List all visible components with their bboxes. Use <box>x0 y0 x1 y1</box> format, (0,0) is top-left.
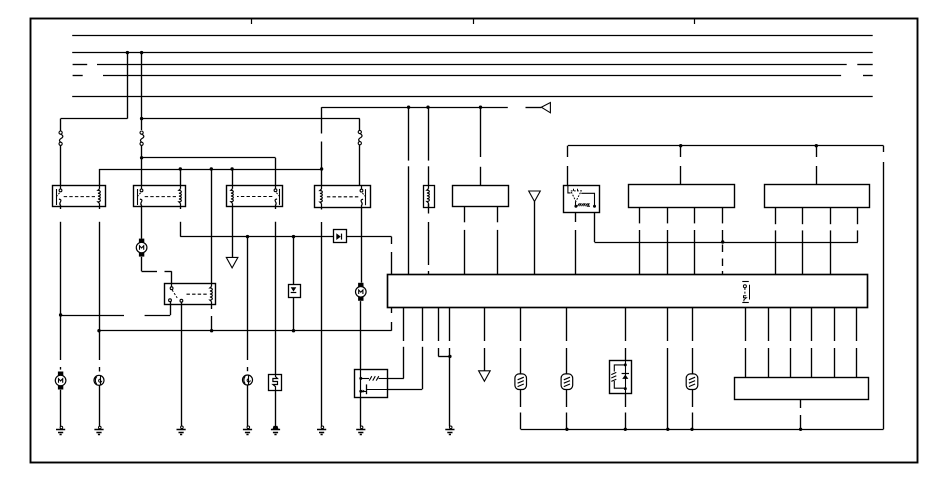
wire inj3 to bus <box>692 390 694 408</box>
wire R1 coil riser <box>99 169 101 185</box>
wire node-C drop to R3 <box>275 158 277 185</box>
junction y331/R5 coil <box>210 329 213 332</box>
relay R4 <box>315 186 371 208</box>
sheet tick 2 <box>473 19 475 24</box>
injector N1 <box>515 374 527 390</box>
wire Q1 to ground <box>360 397 362 426</box>
junction R3 coil <box>230 167 233 170</box>
sheet tick 1 <box>251 19 253 24</box>
wire U3 pin3 <box>830 207 832 224</box>
off-page arrow down B <box>529 191 541 202</box>
wire B1 top pin <box>480 107 482 157</box>
junction R2 coil <box>179 167 182 170</box>
off-page arrow left <box>541 103 550 113</box>
wire D1 column top <box>293 237 295 285</box>
wire B1 pin2 <box>497 207 499 223</box>
unit B1 box <box>453 186 509 207</box>
wire R5 coil down <box>211 305 213 309</box>
wire R1 coil down <box>99 207 101 209</box>
relay R5 <box>165 284 216 305</box>
wire S1 to ground <box>275 391 277 427</box>
junction bus/pin <box>666 428 669 431</box>
ground G5 <box>273 426 279 429</box>
wire Q1 out1 <box>387 378 404 380</box>
wire ecu-a drop <box>408 107 410 160</box>
igniter I1 <box>564 186 600 213</box>
wire F2 down <box>141 146 143 185</box>
wire R1 switch down <box>60 207 62 209</box>
off-page arrow down A <box>226 257 238 268</box>
wire feed-A down <box>127 53 129 119</box>
fuse F1 <box>59 134 62 142</box>
wire branch right <box>142 118 360 120</box>
bottom bus <box>521 429 884 431</box>
sheet tick 3 <box>694 19 696 24</box>
wire ECU arrow pin <box>484 308 486 341</box>
unit U3 box <box>765 185 870 208</box>
wire Q1 out2 <box>387 389 422 391</box>
junction bus/inj2 <box>565 428 568 431</box>
wire arrowB to ECU <box>534 202 536 275</box>
injector N2 <box>561 374 573 390</box>
wire y242 end riser <box>857 230 859 242</box>
ground G2 <box>99 426 102 429</box>
lamp L1 <box>94 375 104 385</box>
wire R2 switch down <box>141 207 143 239</box>
fuse F2 <box>140 134 143 142</box>
ECU box U1 <box>388 275 868 308</box>
ECU internal check switch <box>742 281 749 283</box>
junction y237/lamp L2 <box>246 235 249 238</box>
motor M3 (fuel pump) <box>358 283 363 287</box>
junction node-C <box>140 156 143 159</box>
bus line 1 <box>72 35 873 37</box>
motor M2 (servo) <box>139 239 144 243</box>
wire J1 pin5 <box>834 308 836 341</box>
wire R3 coil riser <box>232 169 234 185</box>
wire valve pin <box>625 308 627 341</box>
bus line 3 right dash <box>857 64 872 66</box>
wire ecu-b drop <box>428 107 430 160</box>
wire U2 pin4 <box>722 207 724 223</box>
lamp L2 <box>243 375 253 385</box>
wire ECU gnd pin a <box>438 308 440 341</box>
wire inj1 pin <box>520 308 522 341</box>
wire feed-B down <box>141 53 143 130</box>
wire inj3 pin <box>692 308 694 341</box>
unit U2 box <box>629 185 735 208</box>
wire R4 coil down <box>321 207 323 209</box>
wire R5 contact2 down <box>181 302 183 305</box>
junction y107/box-B1 <box>479 106 482 109</box>
junction bus/J1 <box>799 428 802 431</box>
wire M2 to R5 common <box>141 257 143 271</box>
junction y237/diode D1 <box>292 235 295 238</box>
wire rail right drop <box>883 146 885 152</box>
ground G6 <box>321 426 324 429</box>
wire branch drop <box>359 119 361 131</box>
ground rail y146 <box>568 145 884 147</box>
junction y107/ecu-b <box>426 106 429 109</box>
junction feed-B/branch <box>140 117 143 120</box>
wire R2 coil down <box>180 207 182 209</box>
wire feed-A left <box>61 118 128 120</box>
wire R4 switch down <box>361 207 363 283</box>
junction bus/inj3 <box>690 428 693 431</box>
wire U2 pin2 <box>667 207 669 223</box>
wire y107 dash <box>526 107 542 109</box>
fuse F3 <box>359 134 362 142</box>
diode D2 in box <box>334 230 347 243</box>
injector N3 <box>686 374 698 390</box>
wire J1 pin4 <box>811 308 813 341</box>
ground G3 <box>181 426 184 429</box>
wire y107 rail <box>322 107 508 109</box>
junction bus2/feed-A <box>126 51 129 54</box>
junction node-D <box>320 167 323 170</box>
wire U2 pin1 <box>639 207 641 223</box>
wire U2 top pin <box>680 146 682 157</box>
wire inj2 pin <box>566 308 568 341</box>
bus line 4 right dash <box>863 75 873 77</box>
wire J1 to bus <box>800 399 802 408</box>
wire node-E to R5 contact <box>61 315 124 317</box>
bus line 5 <box>72 96 873 98</box>
bus line 4 left dash <box>73 75 83 77</box>
wire valve to bus <box>625 393 627 407</box>
coil unit K1 <box>424 186 435 208</box>
connector J1 <box>735 378 869 400</box>
wire R3 coil down <box>232 207 234 258</box>
wire y331 run <box>99 330 392 332</box>
wire y237 run <box>180 236 333 238</box>
wire R2 coil riser <box>180 169 182 185</box>
ground G7 <box>360 426 363 429</box>
wire M1 to ground <box>60 390 62 427</box>
junction bus/valve <box>624 428 627 431</box>
wire J1 pin6 <box>856 308 858 341</box>
wire ECU bus pin <box>667 308 669 341</box>
pump control unit Q1 <box>355 370 388 398</box>
wire inj1 to bus <box>520 390 522 408</box>
wire node-D to R4 coil <box>321 169 323 185</box>
junction y242/U2 pin4 <box>721 240 724 243</box>
ground G4 <box>247 426 250 429</box>
wire node-D up <box>321 107 323 133</box>
wire F3 to relay R4 <box>359 145 361 185</box>
wire node-F down <box>99 331 101 360</box>
wire U2 pin3 <box>694 207 696 223</box>
wire M3 down <box>360 301 362 369</box>
wire B1 pin1 <box>464 207 466 223</box>
wire R5 contact1 down <box>170 302 172 305</box>
junction rail/U2 <box>679 144 682 147</box>
wire L2 column <box>247 237 249 360</box>
wire L2 to ground <box>247 385 249 426</box>
relay R3 <box>227 186 283 207</box>
wire J1 pin3 <box>790 308 792 341</box>
wire ECU gnd pin b <box>449 308 451 341</box>
junction node-F <box>97 329 100 332</box>
wire D1 column bottom <box>293 298 295 331</box>
ground G1 <box>60 426 63 429</box>
wire y237 drop to ECU <box>391 237 393 244</box>
wire J1 pin1 <box>745 308 747 341</box>
wire feed-A drop <box>60 119 62 131</box>
wire I1 pin1 <box>575 213 577 223</box>
ground G8 <box>449 426 452 429</box>
sensor S1 box <box>269 375 282 391</box>
junction gnd tie <box>448 355 451 358</box>
wire rail left drop <box>567 146 569 157</box>
junction y331/diode D1 <box>292 329 295 332</box>
bus line 3 left dash <box>73 64 88 66</box>
junction R5 coil <box>210 167 213 170</box>
wire J1 pin2 <box>768 308 770 341</box>
wire inj2 to bus <box>566 390 568 408</box>
wire node-E down <box>60 315 62 360</box>
wire U3 pin2 <box>802 207 804 224</box>
wire R3 switch down <box>275 207 277 209</box>
wire L1 to ground <box>99 385 101 426</box>
off-page arrow down C <box>479 371 491 382</box>
wire U3 top pin <box>816 146 818 157</box>
junction node-E <box>59 313 62 316</box>
wire y331 riser to ECU <box>391 322 393 331</box>
motor M1 (blower) <box>58 372 63 376</box>
wire U3 pin1 <box>775 207 777 224</box>
wire node-C right <box>142 157 276 159</box>
wire K1 down <box>428 204 430 214</box>
junction bus2/feed-B <box>140 51 143 54</box>
relay R1 <box>53 186 106 207</box>
relay R2 <box>134 186 186 207</box>
wire F1 to relay R1 <box>60 146 62 185</box>
wire I1 pin2 <box>594 213 596 243</box>
junction rail/U3 <box>815 144 818 147</box>
bus line 2 <box>72 52 873 54</box>
bus line 3 <box>97 64 847 66</box>
wire R5 coil drop <box>211 169 213 283</box>
valve V1 (coil+diode) <box>610 361 632 394</box>
diode D1 in box <box>289 285 301 298</box>
wire coil bus y169 <box>99 169 322 171</box>
bus line 4 <box>103 75 841 77</box>
wire y242 run <box>595 242 858 244</box>
junction y107/ecu-a <box>407 106 410 109</box>
